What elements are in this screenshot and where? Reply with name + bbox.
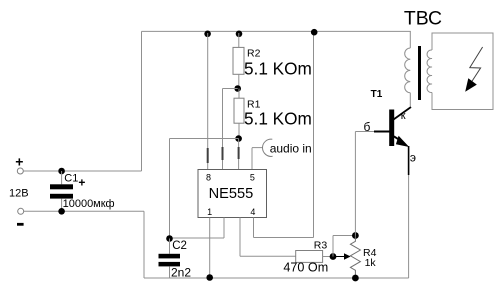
wire timing node horizontal: [170, 138, 239, 140]
wire pin 1 vertical to ground: [209, 218, 211, 278]
svg-text:+: +: [78, 176, 85, 190]
pin 6 stub: [238, 147, 240, 159]
node C1 bottom junction: [58, 208, 65, 215]
wire pin 2 vertical: [223, 218, 225, 239]
transformer secondary coil: [427, 50, 432, 93]
wire + terminal feed: [23, 170, 141, 172]
pin 8 stub: [207, 148, 209, 163]
svg-text:R3: R3: [314, 240, 328, 252]
svg-text:C2: C2: [172, 240, 187, 252]
resistor R1: [234, 89, 244, 139]
wire pin 3 vertical: [239, 218, 241, 257]
svg-text:б: б: [364, 120, 371, 134]
wire pin 6 vertical: [238, 139, 240, 170]
wire discharge horizontal: [223, 88, 238, 90]
wire wiper up: [332, 236, 334, 257]
transformer primary coil: [405, 48, 411, 93]
wire secondary load box: [432, 33, 493, 110]
wire bottom ground rail: [144, 277, 409, 279]
node top rail to R2: [236, 31, 243, 38]
transformer core: [418, 46, 421, 100]
svg-text:5: 5: [250, 173, 255, 183]
wire left vertical from top rail to + terminal: [141, 31, 143, 171]
svg-text:audio in: audio in: [270, 141, 312, 155]
svg-text:NE555: NE555: [209, 186, 254, 202]
svg-text:10000мкф: 10000мкф: [63, 198, 115, 210]
svg-text:к: к: [401, 110, 406, 122]
wire pin 7 vertical: [222, 89, 224, 170]
svg-text:Т1: Т1: [371, 89, 383, 100]
wire top +12V rail: [142, 30, 411, 32]
svg-text:12В: 12В: [9, 187, 29, 199]
wire primary bottom to collector: [409, 93, 411, 107]
capacitor C2: [159, 239, 181, 279]
transistor collector lead: [394, 107, 412, 120]
wire emitter vertical to ground rail: [408, 146, 410, 175]
resistor R4 zigzag: [350, 236, 360, 279]
svg-text:4: 4: [250, 207, 255, 217]
svg-text:ТВС: ТВС: [404, 8, 442, 30]
svg-text:5.1 KOm: 5.1 KOm: [244, 59, 312, 79]
node timing junction R1 bottom: [235, 135, 242, 142]
node top rail reset junction: [311, 29, 318, 36]
wire pin 5 vertical: [251, 148, 253, 170]
wire timing node vertical to C2: [169, 139, 171, 239]
svg-text:5.1 KOm: 5.1 KOm: [244, 108, 312, 128]
wire reset vertical to top rail: [313, 31, 315, 237]
wire base horizontal: [355, 131, 375, 133]
node R2/R1 junction: [234, 85, 241, 92]
resistor R3: [296, 251, 323, 263]
terminal - circle: [18, 208, 24, 214]
terminal + circle: [17, 168, 23, 174]
wire - terminal feed: [24, 210, 144, 212]
wiper arrow into R4: [333, 253, 351, 260]
node R4 bottom junction: [352, 275, 359, 282]
transistor Q1 body bar: [389, 110, 394, 147]
wire pin 5 horizontal to audio connector: [252, 147, 263, 149]
node C1 top junction: [58, 168, 65, 175]
pin 7 stub: [222, 147, 224, 160]
svg-text:470 Om: 470 Om: [283, 261, 328, 275]
node C2 top junction: [166, 235, 173, 242]
svg-text:+: +: [15, 154, 23, 170]
svg-text:2n2: 2n2: [171, 265, 191, 279]
op-amp U1 NE555 box: [198, 170, 267, 218]
wire left vertical minus down: [143, 211, 145, 278]
svg-text:8: 8: [206, 172, 211, 182]
label - (negative): [17, 223, 24, 226]
svg-text:C1: C1: [64, 172, 78, 184]
node R4 top junction: [352, 232, 359, 239]
audio in connector arc: [262, 139, 272, 156]
svg-text:1k: 1k: [365, 257, 377, 269]
transistor emitter lead with arrow: [394, 136, 409, 147]
wire pin 4 horizontal: [254, 237, 314, 239]
wire wiper to R4 top: [333, 235, 355, 237]
resistor R2: [233, 33, 244, 89]
high voltage lightning bolt: [465, 47, 482, 92]
node wiper junction: [330, 253, 337, 260]
wire base vertical from R4 top: [354, 132, 356, 236]
wire R3 right to wiper node: [323, 256, 333, 258]
node top rail to pin8: [204, 31, 211, 38]
wire top rail down to primary: [409, 31, 411, 48]
svg-text:1: 1: [207, 207, 212, 217]
wire pin 4 vertical: [253, 218, 255, 238]
capacitor C1: [50, 171, 73, 211]
wire pin 2 horizontal to C2: [170, 237, 225, 239]
svg-text:э: э: [410, 151, 416, 165]
wire pin 3 output horizontal: [240, 255, 296, 257]
node pin1 ground junction: [206, 274, 213, 281]
wire pin 8 vertical: [207, 33, 209, 170]
